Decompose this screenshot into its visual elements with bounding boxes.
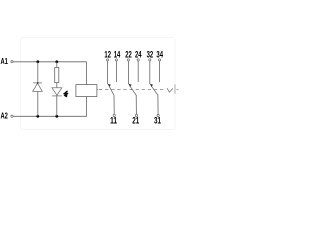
svg-text:14: 14 xyxy=(114,50,121,60)
mover tip arrow 2 xyxy=(129,84,132,87)
svg-text:22: 22 xyxy=(125,50,132,60)
junction A1-resistor xyxy=(55,60,58,63)
mechanical linkage (dashed) xyxy=(99,89,164,91)
svg-text:24: 24 xyxy=(135,50,142,60)
lead 24 xyxy=(137,61,139,82)
svg-text:A2: A2 xyxy=(1,111,9,120)
terminal 24 xyxy=(137,59,139,61)
wire A2 rail to coil xyxy=(13,97,86,117)
terminal 21 xyxy=(135,114,137,116)
svg-text:A1: A1 xyxy=(1,57,9,66)
relay coil K1 xyxy=(76,85,97,97)
mover contact 2 xyxy=(130,86,137,115)
lead 22 xyxy=(127,61,129,84)
terminal A1 xyxy=(11,61,13,63)
terminal 32 xyxy=(149,59,151,61)
mover tip arrow 1 xyxy=(108,84,111,87)
wire diode branch xyxy=(37,62,39,117)
terminal 11 xyxy=(113,114,115,116)
test button chevron xyxy=(167,88,173,92)
lead 34 xyxy=(159,61,161,82)
terminal 12 xyxy=(107,59,109,61)
svg-text:34: 34 xyxy=(156,50,163,60)
lead 12 xyxy=(107,61,109,84)
lead 14 xyxy=(115,61,117,82)
mover contact 3 xyxy=(151,86,158,115)
mover contact 1 xyxy=(109,86,114,115)
svg-text:21: 21 xyxy=(132,116,139,126)
mover tip arrow 3 xyxy=(150,84,153,87)
linkage stub xyxy=(176,89,178,91)
wire A1 rail to coil xyxy=(13,62,86,85)
junction A2-LED xyxy=(55,115,58,118)
terminal 22 xyxy=(127,59,129,61)
LED indicator xyxy=(52,88,62,96)
terminal A2 xyxy=(11,115,13,117)
junction A1-diode xyxy=(36,60,39,63)
junction A2-diode xyxy=(36,115,39,118)
resistor R1 xyxy=(55,68,59,83)
terminal 34 xyxy=(159,59,161,61)
wire resistor/LED branch xyxy=(56,62,58,117)
lead 32 xyxy=(149,61,151,84)
terminal 14 xyxy=(115,59,117,61)
terminal 31 xyxy=(157,114,159,116)
module outline xyxy=(21,38,176,130)
LED emission arrows xyxy=(64,91,68,97)
svg-text:31: 31 xyxy=(154,116,161,126)
actuator bar xyxy=(174,84,176,93)
svg-text:11: 11 xyxy=(110,116,117,126)
coil linkage stub xyxy=(97,89,98,91)
svg-text:12: 12 xyxy=(104,50,111,60)
svg-text:32: 32 xyxy=(147,50,154,60)
diode V1 (suppressor, cathode up) xyxy=(33,82,43,91)
